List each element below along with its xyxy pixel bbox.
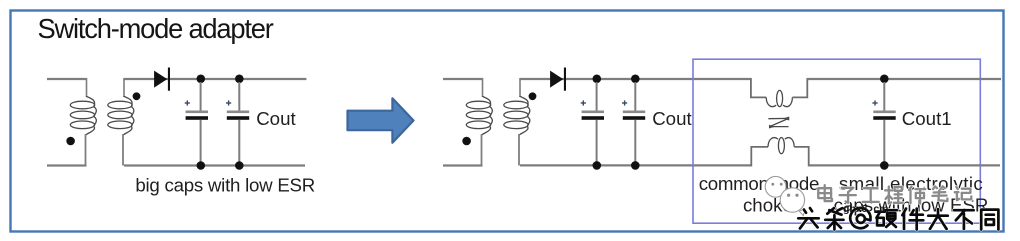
svg-text:Switch-mode adapter: Switch-mode adapter	[38, 13, 274, 44]
wire: choke to output top	[807, 78, 1001, 80]
svg-text:Cout: Cout	[256, 108, 296, 129]
node: cap C1 top junction	[197, 75, 206, 84]
capacitor C1	[200, 82, 202, 111]
capacitor C3	[596, 82, 598, 111]
node: cap C2 bottom junction	[235, 161, 244, 170]
svg-text:Cout1: Cout1	[902, 108, 952, 129]
transformer T1 secondary winding	[123, 78, 125, 97]
capacitor C4	[634, 82, 636, 111]
capacitor C2	[238, 82, 240, 111]
polarity dot, secondary	[133, 92, 141, 100]
node: Cout1 top junction	[880, 75, 889, 84]
transformer T2 secondary winding	[519, 78, 521, 97]
wire: left secondary top rail	[124, 78, 306, 80]
wire: input top lead	[443, 78, 483, 80]
wire: input bottom lead	[443, 164, 483, 166]
wire: input bottom lead	[47, 164, 87, 166]
polarity dot, secondary	[529, 92, 537, 100]
diode D2	[550, 68, 566, 91]
node: cap C1 bottom junction	[197, 161, 206, 170]
transformer T2 primary winding	[466, 96, 492, 166]
node: cap C3 bottom junction	[593, 161, 602, 170]
common-mode choke L1 core	[768, 117, 788, 127]
svg-text:gbx8. cm: gbx8. cm	[843, 203, 889, 215]
watermark logo bubbles	[765, 176, 805, 215]
diode D1	[154, 68, 170, 91]
EMI filter highlight box	[693, 59, 980, 223]
node: cap C4 bottom junction	[631, 161, 640, 170]
svg-text:Cout: Cout	[652, 108, 692, 129]
wire: right secondary top rail into choke	[520, 78, 751, 80]
wire: input top lead	[47, 78, 87, 80]
wire: choke to output bottom	[809, 164, 1000, 166]
wire: right secondary bottom rail into choke	[520, 164, 751, 166]
capacitor Cout1	[883, 82, 885, 111]
node: cap C4 top junction	[631, 75, 640, 84]
polarity dot, primary	[66, 137, 75, 146]
node: cap C3 top junction	[593, 75, 602, 84]
wire: left secondary bottom rail	[124, 164, 305, 166]
node: Cout1 bottom junction	[880, 161, 889, 170]
transformer T1 primary winding	[70, 96, 96, 166]
watermark text line 1	[818, 185, 832, 201]
polarity dot, primary	[462, 137, 471, 146]
common-mode choke L1 bottom winding	[751, 138, 808, 167]
watermark text line 2	[798, 208, 818, 228]
node: cap C2 top junction	[235, 75, 244, 84]
svg-text:big caps with low ESR: big caps with low ESR	[135, 175, 315, 196]
block arrow	[348, 98, 414, 142]
common-mode choke L1 top winding	[751, 78, 807, 107]
